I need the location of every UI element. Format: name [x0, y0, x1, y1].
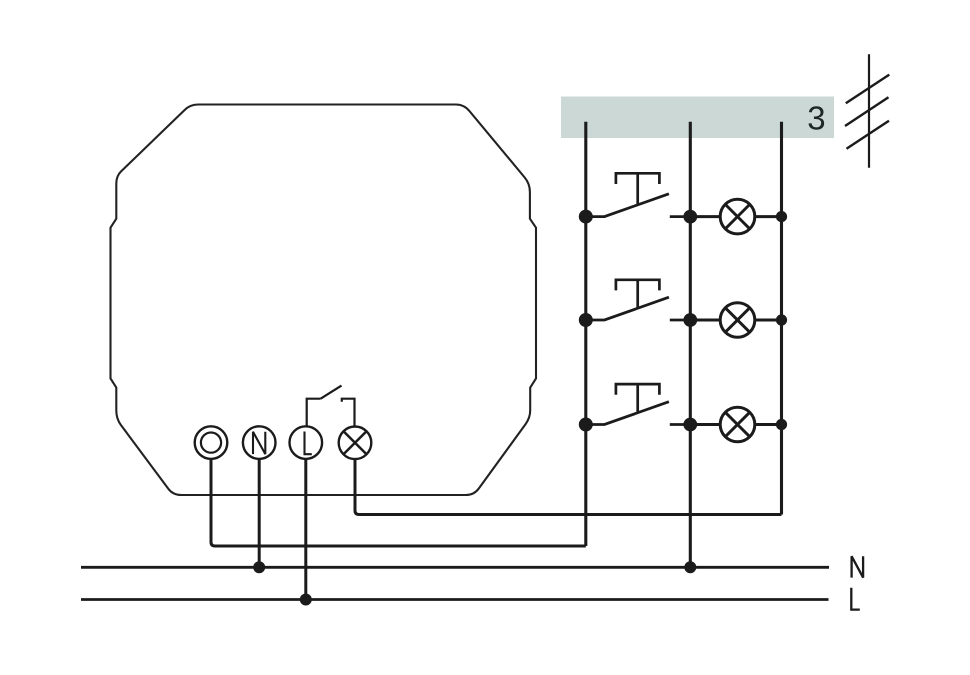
- vertical rail 2 (lamp feed rail): [689, 122, 692, 568]
- junction dot rail3 row1: [776, 211, 787, 222]
- junction dot L terminal on L line: [300, 594, 312, 606]
- label L: [851, 588, 860, 610]
- wire: extension terminal to pushbutton rail: [211, 459, 586, 546]
- junction dot rail2 row3: [683, 418, 697, 432]
- svg-text:3: 3: [807, 99, 825, 136]
- lamp E3: [690, 407, 781, 442]
- junction dot rail2 row2: [683, 313, 697, 327]
- pushbutton S3: [586, 384, 691, 424]
- terminal N: [243, 426, 276, 459]
- vertical rail 1 (pushbutton rail): [584, 122, 587, 546]
- junction dot rail3 row2: [776, 314, 787, 325]
- pushbutton S2: [586, 280, 691, 320]
- vertical rail 3 (lamp return rail): [780, 122, 783, 515]
- cable bar (3-core cable to pushbuttons/lamps): [561, 97, 834, 139]
- junction dot rail1 row1: [579, 210, 593, 224]
- junction dot rail1 row3: [579, 418, 593, 432]
- terminal L: [290, 426, 323, 459]
- lamp E1: [690, 199, 781, 234]
- junction dot rail2 row1: [683, 210, 697, 224]
- junction dot lamp feed rail on N line: [684, 561, 696, 573]
- cable slash symbol (3 strokes): [845, 54, 889, 168]
- junction dot N terminal on N line: [253, 561, 265, 573]
- terminal lamp output (circle with X): [339, 427, 372, 460]
- wire: L terminal down to L line: [304, 459, 307, 600]
- wire: N terminal down to N line: [258, 459, 261, 567]
- pushbutton S1: [586, 173, 691, 216]
- terminal circle 1 (extension input, double circle): [195, 426, 228, 459]
- L supply line: [81, 598, 829, 601]
- wire: lamp terminal to lamp rail: [355, 459, 782, 514]
- internal relay contact between L and lamp output: [307, 386, 355, 427]
- label N: [852, 556, 864, 577]
- device body (flush-mount insert outline): [111, 105, 537, 496]
- junction dot rail1 row2: [579, 313, 593, 327]
- N supply line: [81, 566, 829, 569]
- junction dot rail3 row3: [776, 419, 787, 430]
- lamp E2: [690, 303, 781, 338]
